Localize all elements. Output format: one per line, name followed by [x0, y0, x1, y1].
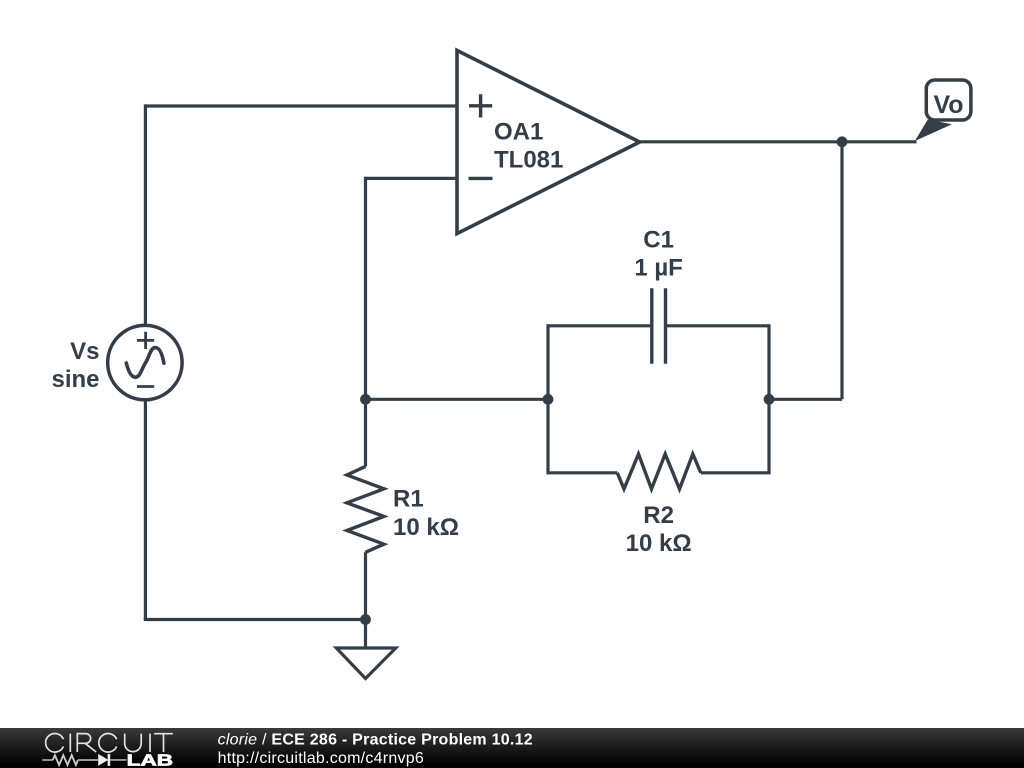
node A junction dot (inverting input / R1 / block left) — [360, 394, 371, 405]
svg-text:1 µF: 1 µF — [634, 255, 683, 282]
op-amp OA1 — [457, 50, 640, 233]
junction dot ground node — [360, 614, 371, 625]
wire: -input vertical down to node A — [364, 177, 367, 399]
wire: -input horizontal — [366, 177, 458, 180]
CircuitLab logo: resistor-diode-LAB row — [42, 753, 173, 768]
wire: block bottom right segment from R2 — [701, 471, 769, 474]
svg-text:http://circuitlab.com/c4rnvp6: http://circuitlab.com/c4rnvp6 — [218, 750, 424, 767]
svg-text:LAB: LAB — [127, 753, 173, 768]
wire: bottom horizontal to ground node — [144, 618, 366, 621]
wire: output node down right side — [840, 142, 843, 400]
junction dot block right — [764, 394, 775, 405]
svg-text:R1: R1 — [393, 486, 424, 513]
capacitor C1 — [634, 227, 683, 364]
svg-text:Vo: Vo — [933, 91, 963, 119]
wire: block right node to right vertical — [769, 398, 842, 401]
voltage source Vs — [51, 325, 182, 399]
CircuitLab logo: CIRCUIT word — [46, 734, 173, 753]
node Vo flag — [914, 80, 971, 143]
wire: parallel block left vertical — [546, 324, 549, 474]
junction dot block left — [543, 394, 554, 405]
wire: op-amp output to Vo flag — [640, 140, 917, 143]
svg-text:OA1: OA1 — [494, 118, 543, 145]
junction dot output node — [837, 136, 848, 147]
wire: Vs bottom down to bottom rail — [144, 400, 147, 620]
wire: ground stub — [364, 620, 367, 649]
svg-text:10 kΩ: 10 kΩ — [626, 530, 692, 557]
svg-text:Vs: Vs — [70, 338, 99, 365]
svg-text:C1: C1 — [643, 227, 674, 254]
wire: block bottom left segment to R2 — [548, 471, 617, 474]
svg-text:sine: sine — [51, 366, 99, 393]
wire: R1 bottom lead — [364, 552, 367, 619]
svg-text:R2: R2 — [643, 502, 674, 529]
wire: node A to parallel block left — [366, 398, 549, 401]
svg-text:TL081: TL081 — [494, 147, 563, 174]
resistor R2 — [617, 454, 701, 557]
svg-text:clorie / ECE 286 - Practice Pr: clorie / ECE 286 - Practice Problem 10.1… — [218, 732, 533, 749]
wire: R1 top lead — [364, 399, 367, 466]
wire: +input top horizontal — [145, 104, 457, 107]
wire: block top right segment from C1 — [666, 324, 770, 327]
wire: parallel block right vertical — [767, 324, 770, 474]
svg-text:10 kΩ: 10 kΩ — [393, 514, 459, 541]
wire: block top left segment to C1 — [548, 324, 652, 327]
footer bar — [0, 728, 1024, 768]
resistor R1 — [347, 466, 459, 552]
wire: left vertical from top corner to Vs top — [144, 104, 147, 326]
ground — [336, 648, 396, 679]
